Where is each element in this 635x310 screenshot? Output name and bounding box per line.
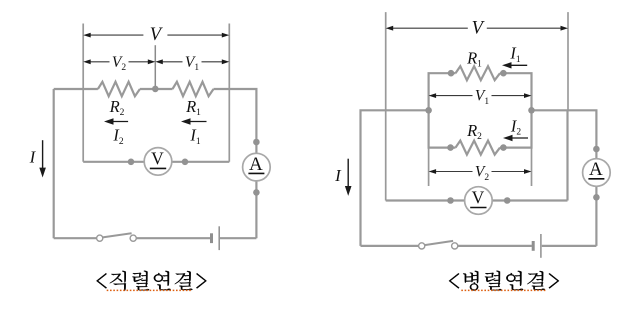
svg-text:V: V xyxy=(151,149,164,169)
svg-text:A: A xyxy=(589,159,603,180)
svg-text:V: V xyxy=(472,188,485,208)
svg-text:A: A xyxy=(249,154,263,175)
